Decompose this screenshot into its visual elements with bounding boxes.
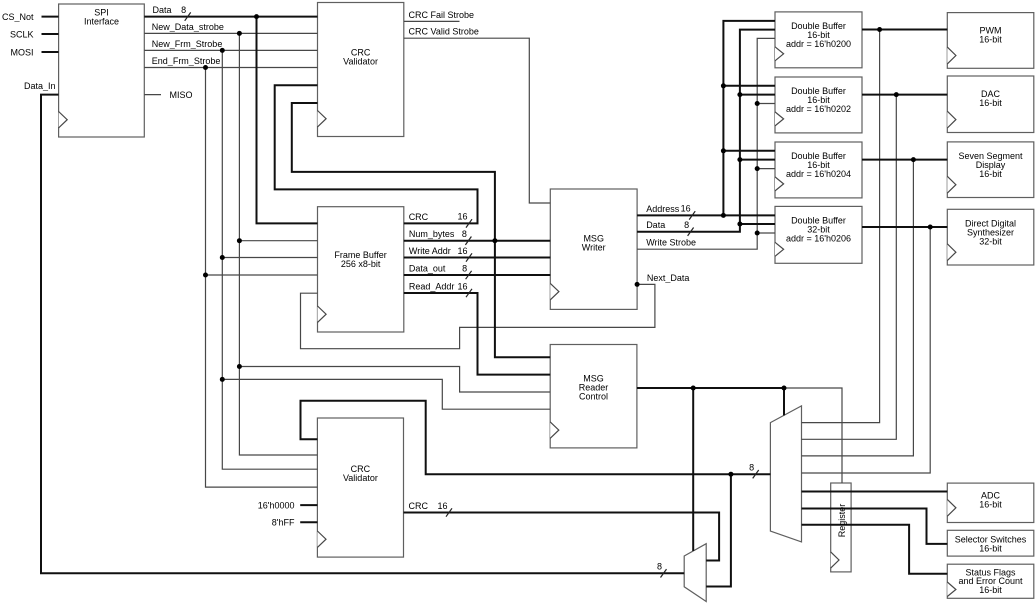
clock pin U4 <box>550 283 559 299</box>
block U4 MSG Writer <box>550 189 637 309</box>
junction New_Frm_Strobe to Frame Buffer <box>220 255 225 260</box>
wire mux M1 to ADC through Register <box>802 491 948 493</box>
clock pin U10 <box>775 242 784 256</box>
clock pin U18 <box>831 552 839 568</box>
wire 8-bit bus to CRC Validator 2 input <box>301 401 771 474</box>
svg-text:MOSI: MOSI <box>10 47 33 57</box>
junction Address to Double Buffer 3 <box>721 148 726 153</box>
svg-text:Write Addr: Write Addr <box>409 246 451 256</box>
mux M2 (small mux) <box>684 544 706 602</box>
bus width slash Write Addr 16 <box>466 253 472 261</box>
wire Data branch to Double Buffer 4 <box>740 223 775 225</box>
svg-text:16: 16 <box>681 204 691 214</box>
bus width slash 8 Data_In <box>661 569 667 577</box>
svg-text:Read_Addr: Read_Addr <box>409 281 455 291</box>
wire MISO stub <box>144 94 161 96</box>
junction Double Buffer 1 output feedback <box>877 27 882 32</box>
wire Write Addr Frame Buffer to MSG Writer <box>404 257 551 259</box>
svg-text:16-bit: 16-bit <box>979 169 1002 179</box>
junction select mux M1 <box>782 386 787 391</box>
wire 16'h0000 constant stub <box>300 504 317 506</box>
bus width slash Data 8 MSG Writer <box>688 228 694 236</box>
svg-text:16: 16 <box>437 501 447 511</box>
svg-text:Interface: Interface <box>84 16 119 26</box>
block U17 Status Flags and Error Count 16-bit <box>947 564 1034 598</box>
wire Num_bytes wrap to CRC Validator and MSG Reader Control <box>292 103 550 357</box>
svg-text:Data: Data <box>153 5 172 15</box>
svg-text:16: 16 <box>457 246 467 256</box>
junction Data to Double Buffer 4 <box>737 222 742 227</box>
wire New_Data_strobe branch to Frame Buffer <box>239 240 317 242</box>
svg-text:CS_Not: CS_Not <box>2 12 34 22</box>
svg-text:16-bit: 16-bit <box>979 500 1002 510</box>
svg-text:16-bit: 16-bit <box>979 98 1002 108</box>
wire mux M1 to Status Flags through Register <box>802 525 948 574</box>
svg-text:MISO: MISO <box>170 90 193 100</box>
wire feedback PWM bus to mux M1 <box>802 30 880 423</box>
block U16 Selector Switches 16-bit <box>947 530 1034 556</box>
svg-text:addr = 16'h0202: addr = 16'h0202 <box>786 104 851 114</box>
wire CRC Valid Strobe to MSG Writer <box>404 38 551 203</box>
clock pin U12 <box>947 111 956 128</box>
svg-text:16: 16 <box>457 281 467 291</box>
wire select to small mux M2 <box>692 388 694 551</box>
block U8 Double Buffer 16-bit addr 16'h0202 <box>775 77 862 133</box>
wire MSG Reader Control output bus <box>637 387 784 389</box>
svg-text:8'hFF: 8'hFF <box>272 518 295 528</box>
wire Data bus MSG Writer riser to Double Buffer 1 <box>637 30 775 232</box>
wire Write Strobe branch to Double Buffer 3 <box>757 168 775 170</box>
svg-text:Data_out: Data_out <box>409 263 446 273</box>
svg-text:addr = 16'h0206: addr = 16'h0206 <box>786 233 851 243</box>
junction Data bus at x256 <box>254 14 259 19</box>
svg-text:Write Strobe: Write Strobe <box>646 238 696 248</box>
wire Address bus MSG Writer to Double Buffer 4 <box>637 214 775 216</box>
bus width slash Data_out 8 <box>466 271 472 279</box>
bus width slash Read_Addr 16 <box>466 289 472 297</box>
wire 8-bit bus branch to small mux M2 output <box>706 474 731 586</box>
clock pin U6 <box>317 531 326 547</box>
bus width slash Data 8 <box>185 12 191 20</box>
svg-text:8: 8 <box>749 463 754 473</box>
clock pin U3 <box>318 306 327 322</box>
clock pin U9 <box>775 177 784 191</box>
junction Double Buffer 4 output feedback <box>928 225 933 230</box>
mux M1 (big demux) <box>770 406 801 542</box>
register U18 <box>831 483 851 572</box>
wire mux M1 to Selector Switches through Register <box>802 509 948 544</box>
svg-text:New_Frm_Strobe: New_Frm_Strobe <box>152 39 223 49</box>
svg-text:New_Data_strobe: New_Data_strobe <box>152 22 224 32</box>
junction Next_Data at MSG Writer pin <box>635 282 640 287</box>
block U7 Double Buffer 16-bit addr 16'h0200 <box>775 12 862 68</box>
svg-text:Validator: Validator <box>343 57 378 67</box>
svg-text:8: 8 <box>181 5 186 15</box>
wire Address bus vertical riser <box>723 21 775 216</box>
clock pin U14 <box>947 244 956 261</box>
bus width slash CRC 16 bottom <box>446 508 452 516</box>
wire Data bus branch to Frame Buffer <box>257 17 318 224</box>
wire Write Strobe branch to Double Buffer 2 <box>757 103 775 105</box>
wire Write Strobe branch to Double Buffer 4 <box>757 232 775 234</box>
svg-text:16: 16 <box>457 212 467 222</box>
wire New_Data_strobe branch to MSG Reader Control <box>239 367 550 393</box>
wire MOSI stub <box>42 51 59 53</box>
junction 8-bit bus branch <box>728 472 733 477</box>
svg-text:addr = 16'h0200: addr = 16'h0200 <box>786 39 851 49</box>
wire End_Frm_Strobe SPI to CRC Validator <box>144 67 317 69</box>
svg-text:Next_Data: Next_Data <box>647 273 690 283</box>
wire feedback DDS bus to mux M1 <box>802 227 931 473</box>
junction New_Data_strobe to Frame Buffer <box>237 238 242 243</box>
wire 8'hFF constant stub <box>300 521 317 523</box>
junction Double Buffer 2 output feedback <box>894 92 899 97</box>
clock pin U2 <box>318 111 327 127</box>
svg-text:16-bit: 16-bit <box>979 585 1002 595</box>
block U15 ADC 16-bit <box>947 483 1034 522</box>
wire Double Buffer 4 output to DDS <box>862 226 947 228</box>
svg-text:16-bit: 16-bit <box>979 544 1002 554</box>
junction Num_bytes at x494 <box>492 238 497 243</box>
svg-text:Num_bytes: Num_bytes <box>409 229 455 239</box>
clock pin U7 <box>775 47 784 61</box>
junction Data to Double Buffer 2 <box>737 92 742 97</box>
wire New_Data_strobe vertical drop to CRC Validator 2 <box>239 33 317 455</box>
bus width slash Address 16 <box>689 211 695 219</box>
svg-text:CRC: CRC <box>409 212 429 222</box>
wire CRC16 Frame Buffer wrap to CRC Validator <box>275 85 478 223</box>
svg-text:Validator: Validator <box>343 473 378 483</box>
block U2 CRC Validator (top) <box>318 3 404 137</box>
svg-text:256 x8-bit: 256 x8-bit <box>341 259 381 269</box>
junction Double Buffer 3 output feedback <box>911 157 916 162</box>
svg-text:CRC Valid Strobe: CRC Valid Strobe <box>409 27 479 37</box>
wire Data_out Frame Buffer to MSG Writer <box>404 274 551 276</box>
wire Data branch to Double Buffer 3 <box>740 159 775 161</box>
svg-text:Register: Register <box>837 504 847 538</box>
clock pin U13 <box>947 176 956 193</box>
clock pin U17 <box>947 582 956 597</box>
svg-text:16'h0000: 16'h0000 <box>258 500 295 510</box>
junction End_Frm_Strobe to Frame Buffer <box>203 273 208 278</box>
bus width slash CRC 16 <box>466 219 472 227</box>
clock pin U1 <box>59 112 68 128</box>
svg-text:32-bit: 32-bit <box>979 237 1002 247</box>
wire Write Strobe MSG Writer to Double Buffers <box>637 38 775 249</box>
svg-text:16-bit: 16-bit <box>979 35 1002 45</box>
svg-text:8: 8 <box>684 220 689 230</box>
block U6 CRC Validator (bottom) <box>317 418 403 557</box>
clock pin U15 <box>947 499 956 516</box>
junction End_Frm_Strobe at x205 <box>203 65 208 70</box>
svg-text:Data_In: Data_In <box>24 81 56 91</box>
wire Address branch to Double Buffer 2 <box>723 85 775 87</box>
svg-text:8: 8 <box>657 562 662 572</box>
block U9 Double Buffer 16-bit addr 16'h0204 <box>775 142 862 198</box>
wire Double Buffer 1 output to PWM <box>862 29 947 31</box>
wire feedback Seven Segment bus to mux M1 <box>802 160 914 456</box>
svg-text:8: 8 <box>462 263 467 273</box>
svg-text:SCLK: SCLK <box>10 29 34 39</box>
block U14 Direct Digital Synthesizer 32-bit <box>947 209 1034 265</box>
junction New_Data_strobe to MSG Reader Control <box>237 364 242 369</box>
clock pin U5 <box>550 422 559 438</box>
svg-text:Data: Data <box>646 220 665 230</box>
wire New_Frm_Strobe branch to Frame Buffer <box>222 257 317 259</box>
wire Double Buffer 3 output to Seven Segment Display <box>862 159 947 161</box>
block U1 SPI Interface <box>59 4 145 137</box>
junction New_Data_strobe at x239 <box>237 31 242 36</box>
svg-text:Writer: Writer <box>582 242 606 252</box>
svg-text:Address: Address <box>646 204 680 214</box>
wire End_Frm_Strobe branch to Frame Buffer <box>206 274 318 276</box>
svg-text:addr = 16'h0204: addr = 16'h0204 <box>786 169 851 179</box>
junction Address to Double Buffer 2 <box>721 83 726 88</box>
svg-text:Control: Control <box>579 391 608 401</box>
block U13 Seven Segment Display 16-bit <box>947 142 1034 198</box>
svg-text:8: 8 <box>462 229 467 239</box>
wire Next_Data MSG Writer to Frame Buffer <box>301 284 655 348</box>
junction Write Strobe to Double Buffer 3 <box>755 166 760 171</box>
wire CS_Not stub <box>42 16 59 18</box>
svg-text:End_Frm_Strobe: End_Frm_Strobe <box>152 56 221 66</box>
wire Read_Addr Frame Buffer to MSG Reader Control <box>404 293 550 375</box>
wire Data_In to small mux M2 <box>41 95 684 574</box>
junction Data to Double Buffer 3 <box>737 157 742 162</box>
junction select small mux <box>691 386 696 391</box>
block U11 PWM 16-bit <box>947 13 1034 69</box>
wire Data branch to Double Buffer 2 <box>740 94 775 96</box>
wire New_Frm_Strobe SPI to CRC Validator <box>144 49 317 51</box>
bus width slash 8 mux M1 input <box>753 470 759 478</box>
wire MSG Reader Control output to Register clock <box>784 388 842 483</box>
wire feedback DAC bus to mux M1 <box>802 95 897 440</box>
bus width slash Num_bytes 8 <box>465 237 471 245</box>
block U5 MSG Reader Control <box>550 345 637 448</box>
wire Data bus SPI to CRC Validator <box>144 16 317 18</box>
wire Double Buffer 2 output to DAC <box>862 94 947 96</box>
svg-text:CRC: CRC <box>409 501 429 511</box>
block U3 Frame Buffer 256 x8-bit <box>318 207 404 332</box>
wire select to mux M1 <box>783 388 785 415</box>
junction Write Strobe to Double Buffer 2 <box>755 101 760 106</box>
wire Num_bytes Frame Buffer to MSG Writer <box>404 240 551 242</box>
wire New_Data_strobe SPI to CRC Validator <box>144 32 317 34</box>
clock pin U11 <box>947 47 956 64</box>
wire End_Frm_Strobe vertical drop to CRC Validator 2 <box>206 68 318 488</box>
wire SCLK stub <box>42 33 59 35</box>
junction New_Frm_Strobe at x222 <box>220 48 225 53</box>
wire New_Frm_Strobe branch to MSG Reader Control <box>222 379 550 409</box>
clock pin U8 <box>775 112 784 126</box>
svg-text:CRC Fail Strobe: CRC Fail Strobe <box>409 10 475 20</box>
wire Address branch to Double Buffer 3 <box>723 150 775 152</box>
junction Write Strobe to Double Buffer 4 <box>755 231 760 236</box>
block U12 DAC 16-bit <box>947 76 1034 133</box>
wire New_Frm_Strobe vertical drop to CRC Validator 2 <box>222 50 317 469</box>
block U10 Double Buffer 32-bit addr 16'h0206 <box>775 206 862 263</box>
wire CRC Fail Strobe stub <box>404 20 460 22</box>
junction New_Frm_Strobe to MSG Reader Control <box>220 377 225 382</box>
wire CRC16 CRC Validator 2 to small mux M2 <box>404 513 720 561</box>
junction Address bus riser <box>721 213 726 218</box>
